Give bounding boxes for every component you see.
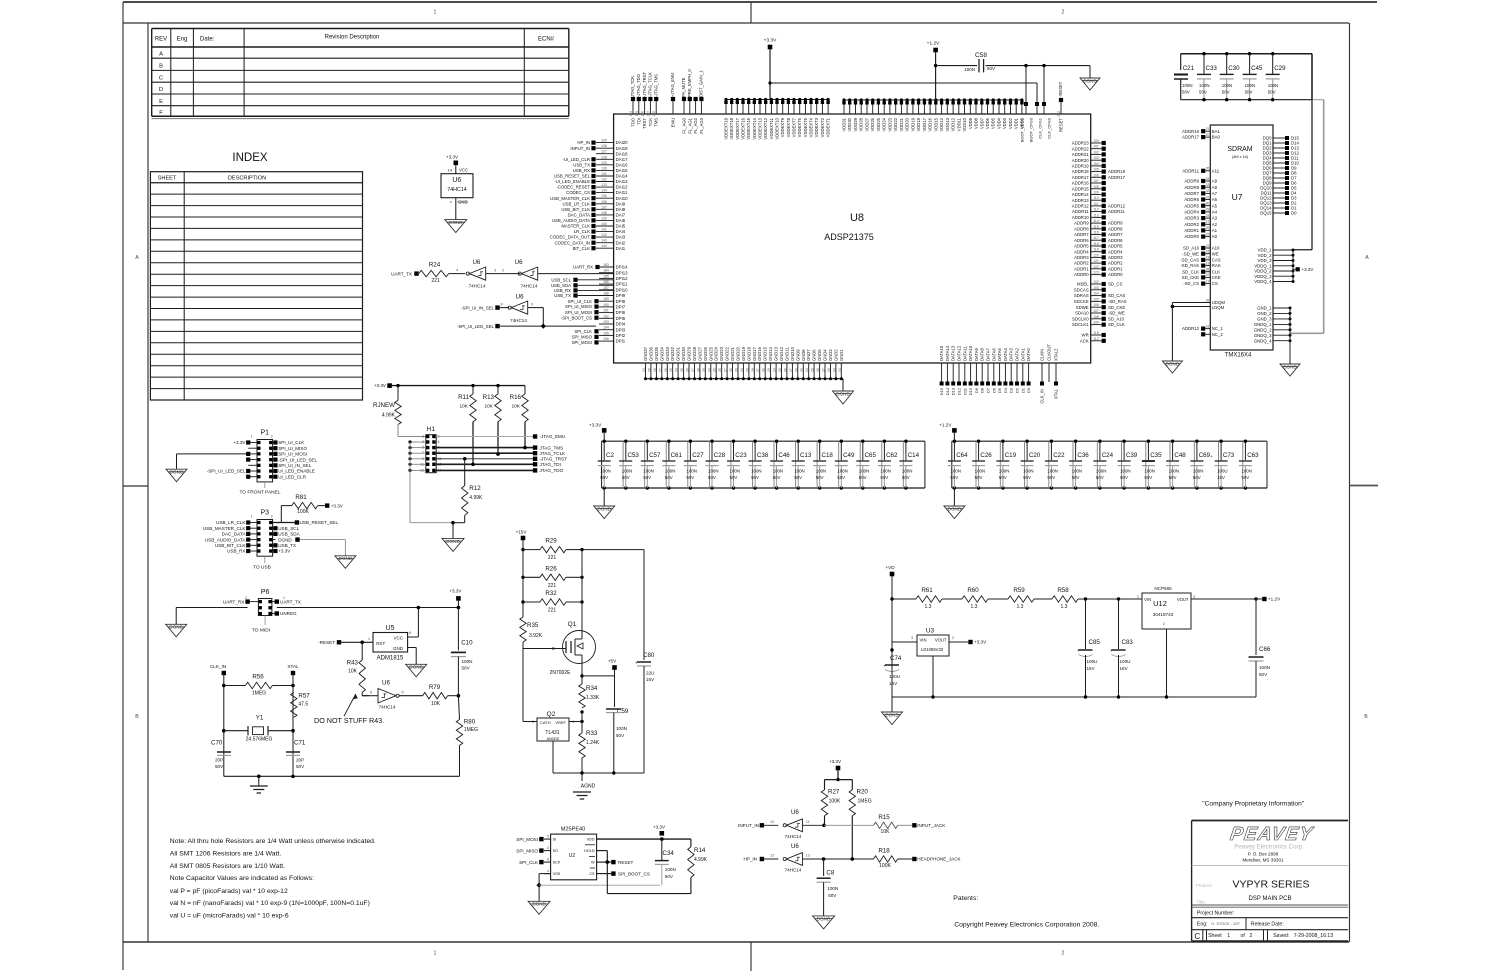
svg-text:50V: 50V: [686, 475, 694, 480]
svg-text:GND9: GND9: [795, 349, 800, 361]
svg-text:CLKIN: CLKIN: [1040, 349, 1045, 361]
svg-text:CAS: CAS: [1212, 258, 1221, 263]
svg-text:10K: 10K: [459, 404, 468, 410]
svg-text:1.3: 1.3: [1061, 604, 1068, 610]
svg-text:U7: U7: [1232, 192, 1243, 202]
svg-text:ADDR16: ADDR16: [1182, 129, 1200, 134]
svg-text:130: 130: [601, 166, 607, 170]
svg-text:50V: 50V: [1096, 475, 1104, 480]
svg-text:-JTAG_TRST: -JTAG_TRST: [540, 457, 568, 462]
svg-text:A1: A1: [1212, 228, 1218, 233]
svg-text:CATH: CATH: [540, 720, 551, 725]
svg-text:P6: P6: [261, 589, 270, 596]
svg-text:2: 2: [271, 435, 273, 439]
svg-text:VDDEXT15: VDDEXT15: [746, 117, 751, 139]
svg-text:DAI10: DAI10: [616, 196, 629, 201]
svg-text:ADDR13: ADDR13: [1072, 198, 1090, 203]
svg-text:25: 25: [745, 368, 749, 372]
svg-text:GND32: GND32: [670, 346, 675, 361]
svg-text:USB_TX: USB_TX: [278, 543, 296, 548]
svg-text:3: 3: [911, 636, 913, 640]
svg-text:RJNEW: RJNEW: [373, 402, 395, 409]
svg-text:FL_AG3: FL_AG3: [699, 117, 704, 133]
svg-text:A6: A6: [1212, 197, 1218, 202]
svg-text:GND14: GND14: [768, 346, 773, 361]
svg-text:100U: 100U: [1120, 659, 1131, 664]
svg-text:C14: C14: [908, 452, 920, 459]
svg-text:119: 119: [1093, 248, 1099, 252]
svg-text:GNDQ_1: GNDQ_1: [1254, 322, 1272, 327]
svg-text:140: 140: [601, 222, 607, 226]
svg-text:Peavey Electronics Corp.: Peavey Electronics Corp.: [1234, 844, 1304, 851]
svg-text:R32: R32: [545, 590, 557, 597]
svg-text:GND11: GND11: [784, 347, 789, 361]
svg-text:GND_1: GND_1: [1257, 306, 1272, 311]
svg-text:DAI17: DAI17: [616, 157, 629, 162]
svg-text:GND16: GND16: [757, 346, 762, 361]
svg-text:16: 16: [1206, 250, 1210, 254]
svg-text:29: 29: [702, 368, 706, 372]
svg-text:C29: C29: [1274, 65, 1286, 72]
svg-text:121: 121: [1093, 259, 1099, 263]
svg-text:U6: U6: [515, 259, 523, 266]
svg-text:VDDEXT8: VDDEXT8: [786, 117, 791, 137]
svg-text:CODEC_CS: CODEC_CS: [566, 190, 590, 195]
svg-text:D7: D7: [986, 387, 991, 393]
svg-text:VDDEXT11: VDDEXT11: [769, 117, 774, 139]
svg-text:VDDEXT19: VDDEXT19: [724, 117, 729, 139]
svg-text:109: 109: [1093, 191, 1099, 195]
svg-text:LR_CLK: LR_CLK: [574, 229, 590, 234]
svg-text:TL431: TL431: [545, 730, 559, 736]
svg-text:WR: WR: [1082, 333, 1089, 338]
svg-text:Revision Description: Revision Description: [325, 35, 380, 41]
svg-text:RESET: RESET: [1059, 118, 1064, 132]
svg-text:27: 27: [822, 368, 826, 372]
svg-text:100N: 100N: [950, 469, 961, 474]
svg-text:VDD_3: VDD_3: [1258, 258, 1272, 263]
svg-text:TRST: TRST: [642, 118, 647, 129]
svg-text:U2: U2: [569, 853, 576, 859]
svg-text:SPI_MISO: SPI_MISO: [516, 848, 538, 853]
svg-text:178: 178: [652, 111, 656, 117]
svg-text:50V: 50V: [1245, 90, 1253, 95]
svg-text:USB_MASTER_CLK: USB_MASTER_CLK: [550, 196, 590, 201]
svg-text:TCK: TCK: [648, 118, 653, 127]
svg-text:10K: 10K: [881, 829, 891, 835]
svg-text:30418743: 30418743: [1153, 612, 1174, 617]
svg-text:ADDR14: ADDR14: [1072, 192, 1090, 197]
svg-text:GND17: GND17: [752, 346, 757, 361]
svg-text:VDDQ_4: VDDQ_4: [1254, 279, 1272, 284]
svg-text:+1.2V: +1.2V: [1268, 597, 1281, 602]
svg-text:50V: 50V: [816, 475, 824, 480]
svg-text:R35: R35: [527, 622, 539, 629]
svg-text:HP_IN: HP_IN: [577, 140, 590, 145]
svg-text:GND33: GND33: [665, 346, 670, 361]
svg-text:29: 29: [1206, 208, 1210, 212]
svg-text:ADDR22: ADDR22: [1072, 146, 1090, 151]
svg-text:24: 24: [773, 368, 777, 372]
svg-text:100U: 100U: [1217, 469, 1228, 474]
svg-text:USB_RESET_SEL: USB_RESET_SEL: [300, 520, 339, 525]
svg-text:U12: U12: [1153, 599, 1167, 608]
svg-text:Release Date:: Release Date:: [1251, 922, 1284, 928]
svg-text:C83: C83: [1122, 639, 1134, 646]
svg-text:28: 28: [1206, 214, 1210, 218]
svg-text:136: 136: [601, 200, 607, 204]
svg-text:DPI5: DPI5: [616, 316, 626, 321]
svg-text:50V: 50V: [987, 66, 995, 71]
svg-text:ADDR3: ADDR3: [1184, 216, 1199, 221]
svg-text:ADDR12: ADDR12: [1182, 326, 1200, 331]
svg-text:DPI11: DPI11: [616, 282, 628, 287]
svg-text:50V: 50V: [999, 475, 1007, 480]
svg-text:7-29-2008_16:13: 7-29-2008_16:13: [1294, 933, 1334, 939]
svg-text:195: 195: [603, 331, 609, 335]
svg-text:HOLD: HOLD: [584, 849, 595, 853]
svg-text:C10: C10: [461, 640, 473, 647]
svg-text:C62: C62: [886, 452, 898, 459]
svg-text:VIN: VIN: [920, 638, 927, 643]
svg-text:DATA4: DATA4: [1003, 347, 1008, 361]
svg-text:100N: 100N: [975, 469, 986, 474]
svg-text:WE: WE: [1212, 251, 1219, 256]
svg-text:16V: 16V: [1120, 666, 1129, 671]
svg-text:24: 24: [838, 368, 842, 372]
svg-text:6: 6: [547, 858, 549, 862]
svg-text:GND20: GND20: [736, 346, 741, 361]
svg-text:D15: D15: [939, 387, 944, 395]
svg-text:138: 138: [601, 211, 607, 215]
svg-text:-SPI_UI_LED_SEL: -SPI_UI_LED_SEL: [207, 469, 246, 474]
svg-text:26: 26: [783, 368, 787, 372]
svg-text:144: 144: [601, 244, 607, 248]
svg-text:VDD13: VDD13: [945, 117, 950, 131]
svg-text:100K: 100K: [829, 799, 841, 805]
svg-text:29: 29: [767, 368, 771, 372]
svg-text:SDCLK1: SDCLK1: [1072, 322, 1089, 327]
svg-text:DQ15: DQ15: [1260, 211, 1272, 216]
svg-text:26: 26: [751, 368, 755, 372]
svg-text:ADDR23: ADDR23: [1072, 141, 1090, 146]
svg-text:221: 221: [548, 583, 557, 589]
svg-text:R58: R58: [1057, 587, 1069, 594]
svg-text:USB_LR_CLK: USB_LR_CLK: [563, 201, 591, 206]
svg-text:VDD21: VDD21: [899, 117, 904, 131]
svg-text:+VD: +VD: [885, 565, 895, 570]
svg-text:100N: 100N: [1268, 83, 1279, 88]
svg-text:C48: C48: [1174, 452, 1186, 459]
svg-text:3.92K: 3.92K: [529, 633, 543, 639]
svg-text:VDD3: VDD3: [1002, 117, 1007, 129]
svg-text:DAI14: DAI14: [616, 174, 629, 179]
svg-text:+3.3V: +3.3V: [829, 759, 842, 764]
svg-text:137: 137: [601, 205, 607, 209]
svg-text:2: 2: [1062, 951, 1065, 957]
svg-text:25: 25: [1206, 232, 1210, 236]
svg-text:CS: CS: [1212, 281, 1218, 286]
svg-text:~JTAG_EMU: ~JTAG_EMU: [670, 73, 675, 97]
svg-text:SPI_CLK: SPI_CLK: [519, 860, 539, 865]
svg-text:DAI11: DAI11: [616, 190, 628, 195]
svg-text:VYPYR SERIES: VYPYR SERIES: [1232, 879, 1309, 891]
svg-text:JTAG_TCLK: JTAG_TCLK: [540, 451, 567, 456]
svg-text:GND21: GND21: [730, 346, 735, 361]
svg-text:CS: CS: [589, 872, 595, 876]
svg-text:+3.3V: +3.3V: [1302, 267, 1314, 272]
svg-text:C20: C20: [1029, 452, 1041, 459]
svg-text:ADDR21: ADDR21: [1072, 152, 1090, 157]
svg-text:DAI5: DAI5: [616, 224, 626, 229]
svg-text:ADDR12: ADDR12: [1108, 204, 1126, 209]
svg-text:100N: 100N: [859, 469, 870, 474]
svg-text:TO MIDI: TO MIDI: [252, 628, 270, 634]
svg-text:ADDR0: ADDR0: [1108, 272, 1123, 277]
svg-text:RST: RST: [376, 641, 385, 646]
svg-text:194: 194: [603, 326, 609, 330]
svg-text:GND_3: GND_3: [1257, 317, 1272, 322]
svg-text:176: 176: [641, 111, 645, 117]
svg-text:ADDR4: ADDR4: [1108, 249, 1123, 254]
svg-text:FL_AG2: FL_AG2: [693, 117, 698, 133]
svg-text:Title:: Title:: [1196, 900, 1206, 905]
svg-text:DATA13: DATA13: [951, 345, 956, 361]
svg-text:C34: C34: [663, 850, 675, 857]
svg-text:+3.3V: +3.3V: [331, 503, 344, 508]
svg-text:VDD29: VDD29: [853, 117, 858, 131]
svg-text:C19: C19: [1005, 452, 1017, 459]
svg-text:P3: P3: [261, 510, 270, 517]
svg-text:25: 25: [680, 368, 684, 372]
svg-text:50V: 50V: [773, 475, 781, 480]
svg-text:100N: 100N: [622, 469, 633, 474]
svg-text:A11: A11: [1212, 168, 1220, 173]
svg-text:D0: D0: [1026, 387, 1031, 393]
svg-text:17: 17: [1206, 279, 1210, 283]
svg-text:ADDR2: ADDR2: [1184, 222, 1199, 227]
svg-text:DSP MAIN PCB: DSP MAIN PCB: [1249, 896, 1292, 902]
svg-text:DATA1: DATA1: [1020, 347, 1025, 361]
svg-text:-JTAG_EMU: -JTAG_EMU: [540, 434, 566, 439]
svg-text:10K: 10K: [484, 404, 493, 410]
svg-text:50V: 50V: [1241, 475, 1249, 480]
svg-text:100N: 100N: [773, 469, 784, 474]
svg-text:221: 221: [548, 555, 557, 561]
svg-text:USB_AUDIO_DATA: USB_AUDIO_DATA: [205, 537, 247, 542]
svg-text:ADDR1: ADDR1: [1108, 266, 1123, 271]
svg-text:LD1086V33: LD1086V33: [921, 647, 944, 652]
svg-text:100N: 100N: [616, 726, 627, 731]
svg-text:VDD19: VDD19: [910, 117, 915, 131]
svg-text:Q2: Q2: [547, 711, 556, 718]
svg-text:100N: 100N: [827, 886, 838, 891]
svg-text:R24: R24: [429, 262, 441, 269]
svg-text:100U: 100U: [889, 674, 900, 679]
svg-text:ADDR5: ADDR5: [1108, 244, 1123, 249]
svg-text:C8: C8: [826, 869, 834, 876]
svg-text:100N: 100N: [816, 469, 827, 474]
svg-text:106: 106: [1093, 303, 1099, 307]
svg-text:184: 184: [603, 269, 609, 273]
svg-text:GND31: GND31: [676, 346, 681, 361]
svg-text:50V: 50V: [665, 874, 674, 879]
svg-text:B: B: [159, 64, 163, 70]
svg-text:R43: R43: [347, 660, 359, 667]
svg-text:GND4: GND4: [823, 349, 828, 361]
svg-text:VDD_1: VDD_1: [1258, 248, 1272, 253]
svg-text:ADDR5: ADDR5: [1074, 244, 1089, 249]
svg-text:+3.3V: +3.3V: [589, 423, 602, 428]
svg-text:134: 134: [601, 189, 607, 193]
svg-text:VDD12: VDD12: [951, 117, 956, 131]
svg-text:+15V: +15V: [516, 530, 528, 535]
svg-text:1: 1: [532, 268, 534, 272]
svg-text:VDD14: VDD14: [939, 117, 944, 131]
svg-text:192: 192: [603, 314, 609, 318]
svg-text:24: 24: [675, 368, 679, 372]
svg-text:P1: P1: [261, 430, 270, 437]
svg-text:VDDEXT6: VDDEXT6: [797, 117, 802, 137]
svg-text:val U = uF (microFarads) val *: val U = uF (microFarads) val * 10 exp-6: [170, 913, 289, 920]
svg-text:NC_1: NC_1: [1212, 326, 1224, 331]
svg-text:JTAG_TMS: JTAG_TMS: [540, 445, 564, 450]
svg-text:C74: C74: [890, 655, 902, 662]
svg-text:ADM1815: ADM1815: [377, 656, 404, 662]
svg-text:R20: R20: [857, 789, 869, 796]
svg-text:139: 139: [601, 216, 607, 220]
svg-text:PEAVEY: PEAVEY: [1229, 824, 1316, 845]
svg-text:DAI2: DAI2: [616, 240, 626, 245]
svg-text:28: 28: [664, 368, 668, 372]
svg-text:25: 25: [778, 368, 782, 372]
svg-text:50V: 50V: [1259, 672, 1268, 677]
svg-text:C73: C73: [1223, 452, 1235, 459]
svg-text:112: 112: [1093, 337, 1099, 341]
svg-text:TMX16X4: TMX16X4: [1225, 353, 1252, 359]
svg-text:105: 105: [1093, 297, 1099, 301]
svg-text:RESET: RESET: [618, 860, 634, 865]
svg-text:R16: R16: [510, 394, 522, 401]
svg-text:B: B: [135, 714, 139, 720]
svg-text:DATA9: DATA9: [974, 347, 979, 361]
svg-text:ADDR10: ADDR10: [1072, 215, 1090, 220]
svg-text:4.99K: 4.99K: [694, 857, 708, 863]
svg-text:A9: A9: [1212, 179, 1218, 184]
svg-text:VDD15: VDD15: [933, 117, 938, 131]
svg-text:GND25: GND25: [708, 346, 713, 361]
svg-text:187: 187: [603, 286, 609, 290]
svg-text:C27: C27: [692, 452, 704, 459]
svg-text:Q1: Q1: [568, 621, 577, 628]
svg-text:FL_AG1: FL_AG1: [687, 117, 692, 133]
svg-text:100N: 100N: [1259, 665, 1270, 670]
svg-text:INPUT_IN: INPUT_IN: [570, 146, 590, 151]
svg-text:R79: R79: [429, 684, 441, 691]
svg-text:100: 100: [1093, 139, 1099, 143]
svg-text:GND18: GND18: [746, 346, 751, 361]
svg-text:UART_RX: UART_RX: [573, 265, 593, 270]
svg-text:175: 175: [635, 111, 639, 117]
svg-text:29: 29: [735, 368, 739, 372]
svg-text:102: 102: [1093, 150, 1099, 154]
svg-text:(4M x 16): (4M x 16): [1232, 155, 1249, 159]
svg-text:VDDEXT12: VDDEXT12: [763, 117, 768, 139]
svg-text:R57: R57: [298, 693, 310, 700]
svg-text:DPI14: DPI14: [616, 265, 629, 270]
svg-text:26: 26: [686, 368, 690, 372]
svg-text:22: 22: [1206, 244, 1210, 248]
svg-text:GND36: GND36: [648, 346, 653, 361]
svg-text:50V: 50V: [950, 475, 958, 480]
svg-text:GND3: GND3: [828, 349, 833, 361]
svg-text:C: C: [1194, 932, 1200, 941]
svg-text:SCK: SCK: [553, 861, 561, 865]
svg-text:37: 37: [1206, 273, 1210, 277]
svg-text:SDCLK0: SDCLK0: [1072, 316, 1089, 321]
svg-text:VDD20: VDD20: [905, 117, 910, 131]
svg-text:100N: 100N: [902, 469, 913, 474]
svg-text:74HC14: 74HC14: [447, 187, 466, 193]
svg-text:39: 39: [1206, 298, 1210, 302]
svg-text:USB_LR_CLK: USB_LR_CLK: [216, 520, 246, 525]
svg-text:UI_LED_ENABLE: UI_LED_ENABLE: [278, 469, 315, 474]
svg-text:H1: H1: [427, 426, 436, 433]
svg-text:1.3: 1.3: [1017, 604, 1024, 610]
svg-text:C22: C22: [1053, 452, 1065, 459]
svg-text:100N: 100N: [1144, 469, 1155, 474]
svg-text:U3: U3: [926, 628, 935, 635]
svg-text:VDD22: VDD22: [893, 117, 898, 131]
svg-text:VCC: VCC: [393, 636, 403, 641]
svg-text:50V: 50V: [643, 475, 651, 480]
svg-text:74HC14: 74HC14: [785, 834, 802, 839]
svg-text:-SD_WE: -SD_WE: [1182, 251, 1199, 256]
svg-text:117: 117: [1093, 236, 1099, 240]
svg-text:C63: C63: [1247, 452, 1259, 459]
svg-text:ADDR2: ADDR2: [1074, 261, 1089, 266]
svg-text:+1.2V: +1.2V: [939, 423, 952, 428]
svg-text:CODEC_DATA_IN: CODEC_DATA_IN: [555, 240, 590, 245]
svg-text:34: 34: [1206, 177, 1210, 181]
svg-text:100N: 100N: [665, 867, 676, 872]
svg-text:A0: A0: [1212, 234, 1218, 239]
svg-text:C64: C64: [956, 452, 968, 459]
svg-text:50V: 50V: [828, 893, 837, 898]
svg-text:50V: 50V: [902, 475, 910, 480]
svg-text:GNDQ_3: GNDQ_3: [1254, 333, 1272, 338]
svg-text:GND: GND: [393, 646, 404, 651]
svg-text:VSS: VSS: [553, 872, 561, 876]
svg-text:SHEET: SHEET: [158, 176, 177, 182]
svg-text:28: 28: [696, 368, 700, 372]
svg-text:CKE: CKE: [1212, 275, 1221, 280]
svg-text:29: 29: [669, 368, 673, 372]
svg-text:XTAL: XTAL: [1054, 388, 1059, 399]
svg-text:GND23: GND23: [719, 346, 724, 361]
svg-text:27: 27: [1206, 220, 1210, 224]
svg-text:ADDR2: ADDR2: [1108, 261, 1123, 266]
svg-text:116: 116: [1093, 231, 1099, 235]
svg-text:125: 125: [601, 139, 607, 143]
svg-text:CLK_CFG1: CLK_CFG1: [1038, 117, 1043, 138]
svg-text:DATA12: DATA12: [957, 345, 962, 361]
svg-text:C35: C35: [1150, 452, 1162, 459]
svg-text:111: 111: [1093, 202, 1098, 206]
svg-text:val P = pF (picoFarads) val *: val P = pF (picoFarads) val * 10 exp-12: [170, 888, 288, 895]
svg-text:Date:: Date:: [200, 37, 215, 43]
svg-text:+3.3V: +3.3V: [974, 640, 987, 645]
